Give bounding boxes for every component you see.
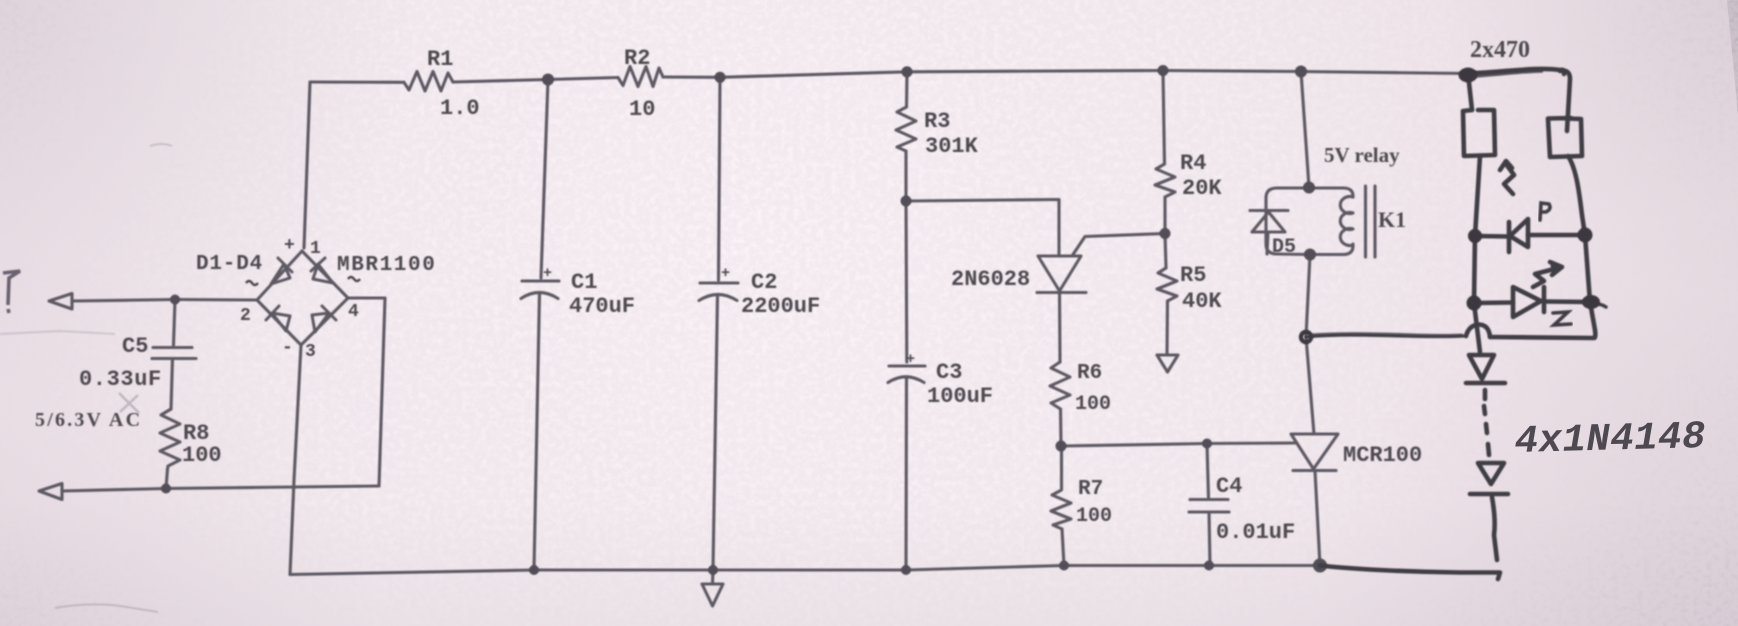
svg-text:C2: C2 [751, 270, 777, 295]
wire R4 branch top [1163, 71, 1165, 165]
wire hand ground bus [1320, 566, 1500, 580]
capacitor C5 [174, 300, 176, 346]
pencil smudge top [150, 144, 172, 146]
diode D2 top-right [311, 258, 333, 283]
wire bridge right loop [348, 298, 385, 486]
node C4 bottom [1204, 561, 1214, 571]
wire right column LED1 to LED2 [1585, 235, 1590, 302]
node LED1 left [1468, 229, 1482, 243]
svg-text:100uF: 100uF [927, 384, 993, 409]
node relay top [1295, 66, 1307, 78]
wire ground stub under C2 [711, 570, 715, 584]
wire left lead from top node [1468, 74, 1472, 111]
wire 2N6028 cathode to R6 [1058, 293, 1062, 363]
svg-text:100: 100 [182, 443, 222, 468]
wire gate line R6R7 node to C4 to MCR gate [1061, 443, 1296, 446]
wire MCR cathode to bus [1315, 471, 1320, 566]
svg-text:K1: K1 [1378, 207, 1406, 232]
resistor R6 [1050, 362, 1070, 409]
node gate/R4/R5 [1160, 228, 1171, 239]
led LED1 (points left) [1507, 222, 1512, 252]
node R8 bottom [161, 484, 171, 494]
transistor 2N6028 PUT [1038, 256, 1081, 291]
relay K1 box [1266, 188, 1309, 255]
resistor R2 [618, 67, 663, 87]
capacitor C2 [700, 281, 738, 284]
wire R6 to node [1059, 409, 1063, 446]
arrow AC top terminal [49, 294, 72, 310]
svg-text:2N6028: 2N6028 [951, 267, 1030, 292]
wire AC top input [72, 300, 257, 302]
node C4 top [1202, 439, 1212, 449]
resistor hand right 470 [1548, 118, 1582, 157]
svg-text:5/6.3V AC: 5/6.3V AC [35, 409, 142, 431]
wire R3 branch [905, 72, 909, 107]
svg-text:20K: 20K [1182, 176, 1222, 201]
svg-text:0.33uF: 0.33uF [79, 367, 162, 392]
wire R1 to C1 node to R2 [453, 78, 618, 83]
arrow photo LED2 [1533, 268, 1558, 287]
wire hop over vertical [1466, 325, 1490, 338]
node C2 bottom [708, 565, 718, 575]
node C1 bottom [529, 565, 539, 575]
resistor R8 [160, 409, 180, 469]
label P handwritten [1540, 203, 1571, 325]
svg-text:470uF: 470uF [569, 294, 635, 319]
capacitor C1 [522, 279, 559, 282]
tilde left [246, 281, 258, 285]
svg-text:+: + [906, 351, 915, 368]
wire bottom ground bus [290, 566, 1320, 575]
node R6/R7/gate [1056, 441, 1067, 452]
wire hand from MCR node wavy [1306, 335, 1466, 337]
wire LED1 row [1475, 234, 1509, 239]
arrow photo LED1 [1504, 164, 1514, 194]
svg-text:2: 2 [240, 306, 251, 326]
wire R8 bottom [166, 469, 168, 489]
wire AC bottom input [62, 486, 379, 491]
wire 2N6028 gate [1072, 234, 1165, 257]
svg-text:0.01uF: 0.01uF [1216, 520, 1295, 545]
svg-text:100: 100 [1076, 505, 1112, 528]
wire box bottom edge to right node [1490, 302, 1595, 338]
node R1/C1 [542, 74, 554, 86]
resistor R5 [1157, 268, 1177, 301]
svg-text:C4: C4 [1216, 474, 1242, 499]
wire node to R5 [1165, 234, 1166, 269]
wire LED2 row [1474, 300, 1513, 305]
wire R5 to ground [1165, 301, 1169, 355]
node R4 top [1158, 65, 1169, 76]
diode D1 top-left [271, 258, 292, 284]
svg-text:100: 100 [1075, 393, 1111, 416]
resistor hand left 470 [1463, 110, 1495, 156]
svg-text:R4: R4 [1180, 151, 1206, 176]
diode D3 bottom-left [266, 306, 290, 331]
node relay box top [1303, 182, 1315, 194]
wire Rb to LED1 right node [1568, 156, 1585, 235]
diode D4 bottom-right [312, 306, 336, 332]
node R7 bottom [1059, 561, 1069, 571]
tilde right [348, 277, 360, 281]
wire left column below LED2 [1474, 303, 1480, 352]
svg-text:MCR100: MCR100 [1343, 443, 1422, 468]
node C3 bottom [901, 565, 911, 575]
hand drawn node dots [1301, 68, 1600, 343]
wire bridge bottom to ground bus [290, 345, 301, 575]
thyristor MCR100 [1291, 434, 1338, 469]
wire Ra to LED1 left node [1475, 156, 1480, 236]
node MCR junction [1301, 332, 1311, 342]
ground under R5 [1157, 355, 1178, 372]
diode hand bottom 1N4148 [1478, 463, 1504, 484]
ground under C2 [702, 584, 723, 606]
svg-text:1: 1 [310, 239, 321, 259]
svg-text:2x470: 2x470 [1470, 37, 1530, 63]
svg-text:+: + [543, 265, 552, 282]
resistor R1 [404, 72, 453, 92]
node R3 top [902, 66, 913, 77]
svg-text:R5: R5 [1180, 263, 1206, 288]
wire C2 branch top lead [719, 77, 721, 280]
resistor R7 [1051, 446, 1071, 529]
wire top bus left segment [310, 80, 404, 83]
arrow AC bottom terminal [39, 484, 62, 500]
svg-text:+: + [721, 265, 730, 282]
svg-text:MBR1100: MBR1100 [337, 254, 436, 277]
bridge rectifier D1-D4 diamond [257, 251, 302, 300]
junction dots printed [161, 65, 1327, 575]
wire dashes [1483, 390, 1488, 399]
node LED2 left [1467, 296, 1482, 311]
resistor R4 [1155, 164, 1175, 197]
wire C1 branch top lead [541, 80, 548, 279]
pencil mark 7 left edge [3, 271, 20, 305]
wire R7 bottom [1062, 529, 1064, 566]
svg-text:1.0: 1.0 [440, 96, 480, 121]
svg-text:R6: R6 [1077, 362, 1102, 385]
diode D5 [1250, 209, 1288, 212]
wire C3 upper lead [904, 201, 908, 362]
svg-text:10: 10 [629, 97, 655, 122]
wire left vertical to bridge top [304, 82, 310, 248]
wire corner down to Rb [1560, 71, 1570, 131]
wire MCR node to anode [1306, 337, 1314, 434]
wire R3 to node [904, 151, 907, 201]
wire top bus right segments [663, 71, 1468, 78]
pencil faint line [0, 331, 115, 334]
svg-text:C1: C1 [571, 270, 597, 295]
capacitor C4 [1207, 444, 1209, 499]
svg-text:301K: 301K [925, 134, 979, 159]
svg-text:R1: R1 [427, 47, 453, 72]
wire relay bottom to MCR node [1306, 255, 1310, 338]
svg-text:C3: C3 [936, 360, 962, 385]
svg-text:D5: D5 [1272, 236, 1296, 259]
svg-text:40K: 40K [1182, 289, 1222, 314]
node MCR bottom [1313, 559, 1327, 573]
svg-text:4x1N4148: 4x1N4148 [1514, 415, 1706, 464]
resistor R3 [896, 107, 916, 151]
wire diode to bus [1492, 497, 1497, 560]
node R3/C3/anode [901, 196, 912, 207]
pencil X mark [119, 393, 139, 413]
relay core lines [1364, 186, 1367, 257]
node LED2 right [1582, 295, 1600, 309]
wire hand top bus [1468, 69, 1565, 74]
node hand top left [1459, 68, 1478, 83]
node relay box bottom [1304, 249, 1316, 261]
wire left column LED1 to LED2 [1474, 236, 1475, 303]
wire node tail [1592, 303, 1606, 307]
node LED1 right [1578, 228, 1593, 243]
svg-text:R3: R3 [924, 109, 950, 134]
svg-text:D1-D4: D1-D4 [196, 253, 263, 276]
svg-text:C5: C5 [122, 334, 148, 359]
svg-text:4: 4 [348, 302, 359, 322]
led LED2 (points right) [1513, 287, 1541, 317]
svg-text:R2: R2 [624, 46, 650, 71]
pencil scribble bottom left [55, 604, 158, 612]
paper edge top right [1727, 0, 1738, 115]
capacitor C3 [889, 364, 925, 367]
svg-text:2200uF: 2200uF [741, 294, 820, 319]
svg-text:R7: R7 [1078, 478, 1103, 501]
svg-text:5V relay: 5V relay [1324, 143, 1400, 167]
svg-text:3: 3 [305, 342, 316, 362]
label Z handwritten [1553, 312, 1571, 325]
svg-text:-: - [282, 338, 293, 358]
wire R4 to node [1163, 197, 1166, 234]
svg-text:+: + [284, 236, 295, 256]
wire node to 2N6028 anode [906, 200, 1059, 257]
wire relay branch top lead [1301, 72, 1309, 188]
node AC top / C5 [170, 295, 180, 305]
relay K1 coil loops [1340, 197, 1353, 246]
node R2/C2 [715, 72, 726, 83]
diode hand top 1N4148 [1469, 355, 1494, 379]
